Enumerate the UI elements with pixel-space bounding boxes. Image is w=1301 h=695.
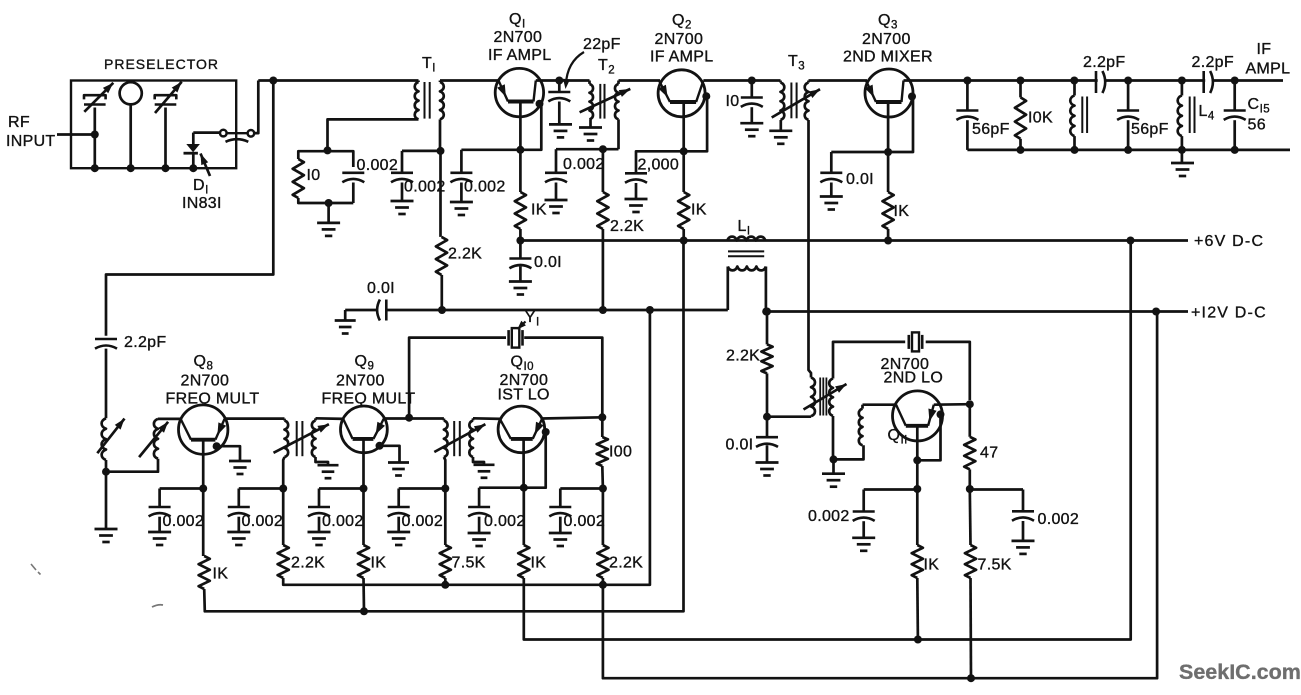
svg-text:2.2K: 2.2K [610,218,644,235]
svg-text:0.002: 0.002 [1038,511,1080,528]
capacitor 2.2pF input [95,339,117,418]
svg-text:0.002: 0.002 [322,513,364,530]
Q11 2ND LO label [884,370,944,387]
preselector box [71,81,236,169]
wire 1K Q1 to rail [519,229,522,241]
wire La to Lb [106,459,158,472]
IF label [1257,41,1272,58]
D1 label [193,177,209,197]
resistor 47 [964,437,975,470]
capacitor 0.002 4 [388,489,410,533]
svg-text:2ND MIXER: 2ND MIXER [843,49,933,66]
ground L4 [1171,150,1194,176]
node 10K top [1017,77,1025,85]
svg-text:2,000: 2,000 [638,157,680,174]
wire T2 secondary junction [556,148,619,151]
SeekIC watermark [1179,660,1301,684]
transistor Q3 2N700 2ND MIXER [865,69,913,117]
svg-text:+I2V D-C: +I2V D-C [1191,305,1267,322]
wire Q11 collector [934,403,970,406]
variable inductor La [97,418,124,471]
T3 label [788,53,805,73]
node 56pF a [963,77,971,85]
wire 1K Q3 to rail [887,229,890,241]
wire Q1 base down [519,102,522,150]
ground TRb secondary [474,465,495,478]
variable capacitor C-b in preselector [155,82,182,169]
wire T2 secondary bottom [617,119,620,149]
node Q10 emitter edge [542,428,550,436]
svg-text:IK: IK [531,555,547,572]
wire 7.5K to busA [444,578,447,585]
node busA 2.2K [599,581,607,589]
svg-text:IK: IK [894,203,910,220]
transformer TRa [285,418,316,457]
+6V label [1194,233,1264,250]
node L4 bottom [1178,146,1186,154]
node Q3 collector edge [908,93,916,101]
wire busC [524,241,1131,640]
wire to cap 0.002 a [402,150,441,153]
node tank top [324,146,332,154]
ground 0.002 1 [148,532,171,545]
svg-text:RF: RF [8,114,30,131]
meter/lamp in preselector [120,82,142,168]
Q2 IF AMPL label [650,49,713,66]
node 2.2K T1 bottom [438,306,446,314]
wire tank to base coil [834,445,864,459]
7.5K b label [978,557,1012,574]
ground La [95,529,118,542]
wire Q8 bottom down [202,489,205,557]
node Q11 emitter edge [937,410,945,418]
wire diode to switch [193,131,221,134]
T3 variable arrow [772,89,820,117]
node Q3 base junction [884,148,892,156]
svg-text:2N700: 2N700 [336,373,385,390]
node Q2 collector edge [702,92,710,100]
svg-text:PRESELECTOR: PRESELECTOR [104,56,219,72]
wire Q2 base down [682,102,685,151]
ground 0.002 5 [468,533,491,546]
2.2K a label [291,555,325,572]
ground TRa secondary [318,465,339,478]
svg-text:FREQ MULT: FREQ MULT [166,391,260,408]
wire +12V rail right [766,310,1188,313]
Q2 2N700 label [655,31,704,48]
ground 0.01 series [335,310,356,334]
ground 0.002 4 [387,532,410,545]
capacitor 0.002 5 [468,488,490,533]
node Q8 bottom [199,485,207,493]
wire Q1 jct down [519,150,522,192]
svg-text:0.0I: 0.0I [367,280,395,297]
ground 10 cap [740,123,763,136]
svg-text:0.002: 0.002 [464,179,506,196]
resistor 1K Q9 [358,545,369,578]
capacitor 0.01 tank [756,417,778,463]
svg-text:22pF: 22pF [583,36,621,53]
wire crystal2 loop [833,342,970,400]
node Q3 rail [884,237,892,245]
capacitor 0.01 Q1 below rail [509,241,531,282]
Q3 label [878,12,898,32]
ground 22pF [549,124,572,137]
wire Q10 bottom to cap5 [479,486,524,489]
resistor 2.2K tank [761,344,772,373]
transformer T2 [590,81,619,120]
wire 100 bottom to cap6 [560,487,603,490]
resistor 7.5K a [440,545,451,578]
node Q1 rail [516,237,524,245]
svg-text:2N700: 2N700 [181,373,230,390]
wire Q2 jct to 2000 cap [636,151,684,173]
switch contact a [220,130,227,137]
2.2K tank label [726,348,760,365]
wire T1 primary bottom [328,119,419,146]
ground 0.01 tank [756,463,779,476]
svg-text:+6V D-C: +6V D-C [1194,233,1264,250]
svg-text:INPUT: INPUT [6,133,56,150]
resistor 1K Q11 [912,545,923,578]
Q3 2N700 label [862,31,911,48]
Q8 label [194,353,214,373]
diode D1 [184,133,200,169]
node busB 1K Q9 [360,607,368,615]
wire TRb to Q10 [473,417,501,420]
svg-text:0.0I: 0.0I [846,171,874,188]
svg-text:0.0I: 0.0I [726,437,754,454]
wire Q1 to T2 [536,79,590,82]
node Y1 left [405,414,413,422]
node tank bottom [325,199,333,207]
L1 label [738,218,751,238]
wire 1K Q11 to busC [916,578,919,640]
svg-text:IK: IK [371,555,387,572]
node Q11 bottom [913,485,921,493]
resistor 2.2K T1 [436,237,447,275]
wire Y1 loop [409,338,602,418]
Q9 2N700 label [336,373,385,390]
svg-text:I00: I00 [609,444,632,461]
2.2K T2 label [610,218,644,235]
wire Q9 bottom to cap3 [319,487,364,490]
svg-text:IK: IK [691,202,707,219]
resistor 100 [597,437,608,466]
node 2.2K tank top [763,308,771,316]
svg-text:0.002: 0.002 [402,513,444,530]
L4 label [1199,103,1215,123]
svg-text:2.2pF: 2.2pF [1192,54,1234,71]
svg-text:IF AMPL: IF AMPL [650,49,713,66]
inductor L1 [727,237,766,312]
svg-text:0.002: 0.002 [163,513,205,530]
scan artifact [31,564,163,607]
Q11 2N700 label [881,356,930,373]
svg-text:2N700: 2N700 [655,31,704,48]
wire 2.2K T1 down [440,275,443,310]
node 22pF [555,77,563,85]
0.002 1 label [163,513,205,530]
node 56pF b bottom [1124,146,1132,154]
node 56pF b [1124,77,1132,85]
resistor 1K Q10 [518,545,529,578]
node Q2 rail [680,237,688,245]
wire tank primary bottom [767,415,811,418]
wire top junction down-left [106,81,273,336]
switch closed bar [227,132,248,134]
wire 2.2pF a to 56pF b [1105,79,1206,82]
T2 variable arrow [580,89,631,112]
svg-text:2.2pF: 2.2pF [124,334,166,351]
wire TRb to cap4 [399,487,446,490]
transistor Q10 2N700 1ST LO [498,406,545,453]
svg-text:FREQ MULT: FREQ MULT [322,391,416,408]
TRa variable arrow [274,424,329,453]
node busA top [646,306,654,314]
node L4 top [1178,77,1186,85]
wire tank to ground [327,203,330,223]
svg-text:0.002: 0.002 [808,508,850,525]
wire Q9 emitter to ground [380,446,400,463]
node preselector RF input [91,131,99,139]
56pF a label [972,121,1010,138]
svg-text:2N700: 2N700 [494,29,543,46]
10K label [1028,110,1053,127]
wire T2 to Q2 [619,79,661,82]
0.002 a label [404,179,446,196]
svg-text:7.5K: 7.5K [978,557,1012,574]
svg-text:0.002: 0.002 [564,513,606,530]
svg-text:IN83I: IN83I [182,195,222,212]
T1 label [422,55,436,75]
T2 label [598,57,615,77]
wire TRa secondary to ground [316,457,329,465]
svg-text:I0: I0 [726,93,740,110]
wire Q1 jct to cap [461,148,520,151]
wire 2.2K b upper [602,489,605,546]
wire filter bottom rail [967,149,1290,152]
wire Q3 base down [887,102,890,152]
node Q10 collector jct [598,413,606,421]
wire Lb to Q8 [158,418,182,421]
svg-text:2.2K: 2.2K [448,246,482,263]
wire T1jct down [439,151,442,237]
wire Q10 bottom down [522,488,525,545]
+12V label [1191,305,1267,322]
capacitor 0.002 1 [149,489,171,533]
0.002 3 label [322,513,364,530]
Q8 FREQ MULT label [166,391,260,408]
node busC 1K Q11 [914,636,922,644]
Q9 FREQ MULT label [322,391,416,408]
ground 0.002 6 [549,533,572,546]
wire 100 top [601,417,604,437]
ground 0.002 c [545,200,568,213]
capacitor 0.002 6 [549,489,571,534]
wire switch riser to T1 [258,79,418,82]
wire 2.2K T2 upper [602,149,605,192]
capacitor 0.002 7 [853,490,875,538]
inductor Q11 base coil [859,409,863,446]
wire T3 primary to ground [779,120,782,131]
node box bottom c [162,164,170,172]
0.002 2 label [242,513,284,530]
ground tank [317,223,340,236]
1K Q3 label [894,203,910,220]
resistor 1K Q2 [678,192,689,229]
wire Q10 collector [542,417,602,418]
Y1 annotation tick [517,321,526,330]
capacitor 0.002 tank [342,173,364,203]
wire 1K Q2 to rail [682,229,685,241]
wire 100 bottom [601,466,604,489]
node L1 right [762,308,770,316]
wire busB left [204,241,683,612]
wire Q11 bottom down [916,489,919,545]
svg-text:IST LO: IST LO [498,387,550,404]
crystal Y2 [909,332,922,351]
transistor Q1 2N700 IF AMPL [495,68,543,116]
resistor 1K Q8 [199,556,210,589]
100 label [609,444,632,461]
node Q11 collector jct [966,400,974,408]
TR tank variable arrow [804,384,847,410]
resistor 2.2K T2 [597,192,608,229]
svg-text:IF: IF [1257,41,1272,58]
2.2K b label [609,555,643,572]
svg-text:I0K: I0K [1028,110,1053,127]
0.002 6 label [564,513,606,530]
C15 56 label [1248,117,1266,134]
node C15 top [1231,77,1239,85]
wire TRa to Q9 [316,417,345,420]
svg-text:7.5K: 7.5K [452,555,486,572]
svg-text:SeekIC.com: SeekIC.com [1179,660,1301,684]
capacitor 2.2pF a [1096,71,1105,93]
capacitor 0.002 c [545,149,567,200]
7.5K a label [452,555,486,572]
2.2pF b label [1192,54,1234,71]
wire tank bottom rail [298,198,353,203]
22pF label [583,36,621,53]
node TRa bottom [279,485,287,493]
wire Q9 base down [362,439,365,489]
Y1 label [525,309,540,329]
svg-text:0.002: 0.002 [357,157,399,174]
resistor 10K [1015,97,1026,138]
svg-text:2.2K: 2.2K [609,555,643,572]
wire switch to top [253,81,258,134]
wire TRb primary down [444,457,445,489]
node coil1 top [1070,77,1078,85]
wire Q8 bottom to cap1 [160,487,204,490]
wire Q3 jct down [887,152,890,192]
svg-text:56: 56 [1248,117,1266,134]
svg-text:2N700: 2N700 [862,31,911,48]
wire 2.2pF b to end [1212,79,1283,82]
wire TRb secondary to ground [473,457,484,465]
Q1 2N700 label [494,29,543,46]
ground 0.002 2 [227,532,250,545]
0.002 4 label [402,513,444,530]
node busA 7.5K [441,581,449,589]
wire base coil to Q11 [863,405,897,409]
capacitor 56pF b [1117,81,1139,150]
10 cap label [726,93,740,110]
wire Q8 collector [225,417,285,420]
ground 0.002 3 [308,532,331,545]
transistor Q8 2N700 FREQ MULT [179,405,228,454]
wire T3 secondary down to tank [809,120,812,378]
RF INPUT label [6,114,56,150]
PRESELECTOR label [104,56,219,72]
svg-text:IK: IK [213,566,229,583]
node +6V busC [1127,237,1135,245]
node Q11 base jct [913,456,921,464]
wire T2 primary to ground [589,119,592,127]
svg-text:56pF: 56pF [972,121,1010,138]
transistor Q2 2N700 IF AMPL [658,70,705,117]
node Q9 bottom [360,485,368,493]
node Q9 emitter edge [376,442,384,450]
inductor coil1 [1070,81,1087,150]
resistor 1K Q3 [883,192,894,229]
node 10K bottom [1017,146,1025,154]
1K Q8 label [213,566,229,583]
47 label [980,445,998,462]
svg-text:2.2pF: 2.2pF [1083,54,1125,71]
wire Q2 to T3 [703,79,780,82]
node Q2 base junction [680,147,688,155]
wire 2.2K tank upper [766,312,769,345]
node box bottom a [91,164,99,172]
wire Q8 emitter to ground [217,446,240,461]
variable inductor Lb [139,419,168,459]
transformer T3 [781,81,809,121]
wire Q3 to filter [904,79,1098,82]
node Q1 collector edge [536,100,544,108]
capacitor 22pF [548,81,570,125]
capacitor 10 [741,81,763,124]
capacitor 0.01 series [377,300,386,321]
0.01 Q1 label [534,254,562,271]
crystal Y1 [509,328,523,348]
0.01 Q3 label [846,171,874,188]
resistor 10 [293,159,304,198]
AMPL label [1246,61,1291,78]
wire Q11 jct down [916,460,919,489]
Q1 IF AMPL label [488,47,551,64]
capacitor 0.002 3 [308,489,330,533]
0.002 c label [563,156,605,173]
1K Q11 label [924,557,940,574]
inductor L4 [1178,81,1195,150]
2.2pF a label [1083,54,1125,71]
capacitor C15 [1224,81,1246,150]
wire 10K top stub [1019,81,1022,98]
svg-text:0.002: 0.002 [484,513,526,530]
2.2K T1 label [448,246,482,263]
wire 2.2K T2 down [602,229,605,310]
1N831 label [182,195,222,212]
svg-text:2ND LO: 2ND LO [884,370,944,387]
ground 0.002 a [391,201,414,214]
1K Q1 label [531,202,547,219]
wire 7.5K b upper [968,489,971,545]
0.01 tank label [726,437,754,454]
svg-text:I0: I0 [307,167,321,184]
